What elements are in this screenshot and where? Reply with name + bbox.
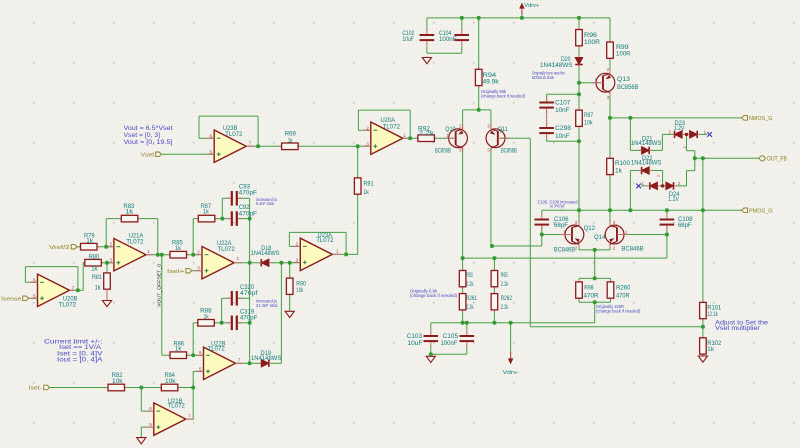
svg-text:9.4nF total: 9.4nF total	[256, 201, 274, 206]
svg-text:1k: 1k	[204, 314, 210, 321]
svg-text:Q13: Q13	[617, 76, 631, 83]
svg-text:68pF: 68pF	[554, 222, 568, 229]
svg-text:7: 7	[188, 413, 191, 418]
svg-text:1: 1	[704, 129, 707, 134]
svg-text:Iout = [0. 4]A: Iout = [0. 4]A	[57, 356, 103, 363]
svg-text:1k: 1k	[95, 285, 102, 292]
svg-text:Vout = [0, 19.5]: Vout = [0, 19.5]	[124, 139, 173, 146]
svg-text:10k: 10k	[584, 120, 593, 127]
svg-text:TL072: TL072	[383, 124, 401, 131]
svg-text:Vout = 6.5*Vset: Vout = 6.5*Vset	[124, 125, 173, 132]
svg-text:BZX84L15 diode: BZX84L15 diode	[532, 75, 554, 80]
svg-text:TL072: TL072	[225, 131, 243, 138]
svg-text:2: 2	[487, 124, 490, 129]
svg-text:R96: R96	[584, 32, 598, 39]
svg-text:3: 3	[607, 95, 610, 100]
svg-text:Vset multiplier: Vset multiplier	[715, 325, 760, 332]
svg-text:3: 3	[487, 147, 490, 152]
svg-text:1k: 1k	[86, 238, 94, 245]
svg-text:BC846B: BC846B	[554, 246, 575, 253]
svg-text:1: 1	[403, 133, 406, 138]
svg-text:R93: R93	[466, 272, 473, 279]
svg-text:470pf: 470pf	[240, 290, 258, 297]
svg-text:TL072: TL072	[218, 246, 236, 253]
svg-text:3: 3	[613, 220, 616, 225]
svg-text:1: 1	[147, 249, 150, 254]
svg-text:3: 3	[296, 258, 299, 263]
svg-text:10uF: 10uF	[407, 340, 422, 347]
svg-text:2: 2	[575, 245, 578, 250]
svg-text:TL072: TL072	[316, 237, 334, 244]
svg-text:R81: R81	[92, 274, 102, 281]
svg-text:1k: 1k	[363, 189, 369, 196]
svg-text:Q12: Q12	[584, 225, 596, 232]
svg-text:2: 2	[678, 181, 681, 186]
svg-text:BC846B: BC846B	[621, 246, 643, 253]
svg-text:TL072: TL072	[208, 346, 226, 353]
svg-text:7: 7	[238, 358, 241, 363]
svg-text:VOUT_OFFSET_0: VOUT_OFFSET_0	[157, 264, 162, 307]
svg-text:Iset-: Iset-	[29, 386, 43, 392]
svg-text:BC856B: BC856B	[501, 148, 517, 155]
svg-text:2: 2	[613, 245, 616, 250]
svg-text:1N4148WS: 1N4148WS	[631, 140, 662, 147]
svg-text:3: 3	[366, 141, 369, 146]
svg-text:3: 3	[575, 220, 578, 225]
svg-text:2.2k: 2.2k	[419, 130, 435, 137]
svg-text:100nF: 100nF	[439, 36, 457, 43]
svg-text:2: 2	[607, 67, 610, 72]
svg-text:10k: 10k	[165, 378, 176, 385]
svg-text:to 3*47pF: to 3*47pF	[550, 204, 565, 209]
svg-text:1k: 1k	[175, 245, 182, 252]
svg-text:21.4nF total: 21.4nF total	[256, 303, 277, 308]
svg-text:1: 1	[641, 181, 644, 186]
svg-text:470pF: 470pF	[239, 210, 257, 217]
svg-text:1N4148WS: 1N4148WS	[631, 160, 662, 167]
svg-text:Vref/2: Vref/2	[49, 245, 70, 251]
svg-text:R260: R260	[616, 284, 631, 291]
svg-text:1N4148WS: 1N4148WS	[251, 250, 280, 257]
svg-text:Vdrv+: Vdrv+	[524, 3, 540, 9]
svg-text:470R: 470R	[584, 293, 599, 300]
svg-text:68pF: 68pF	[678, 222, 692, 229]
svg-text:Isense: Isense	[1, 296, 22, 302]
svg-text:5: 5	[199, 366, 202, 371]
svg-text:R95: R95	[501, 272, 508, 279]
svg-text:R261: R261	[466, 295, 477, 302]
svg-text:100R: 100R	[584, 39, 600, 46]
svg-text:2.2k: 2.2k	[466, 304, 474, 311]
svg-text:470pF: 470pF	[240, 315, 258, 322]
svg-text:1: 1	[237, 256, 240, 261]
svg-text:TL072: TL072	[168, 402, 186, 409]
svg-text:1k: 1k	[203, 209, 209, 216]
svg-text:1.2V: 1.2V	[668, 196, 679, 203]
svg-text:BC856B: BC856B	[435, 148, 451, 155]
svg-text:TL072: TL072	[59, 302, 77, 309]
svg-text:2.2k: 2.2k	[501, 281, 509, 288]
svg-text:Vset: Vset	[141, 152, 155, 158]
svg-text:R97: R97	[584, 112, 593, 119]
svg-text:470R: 470R	[616, 293, 630, 300]
svg-text:1k: 1k	[707, 346, 715, 353]
svg-text:2: 2	[459, 124, 462, 129]
svg-text:2: 2	[366, 125, 369, 130]
svg-text:1k: 1k	[175, 346, 182, 353]
svg-text:PMOS_G: PMOS_G	[749, 208, 773, 214]
svg-text:Iset+: Iset+	[167, 269, 185, 275]
svg-text:3: 3	[109, 258, 112, 263]
svg-text:5: 5	[149, 422, 152, 427]
svg-text:1k: 1k	[91, 266, 98, 273]
svg-text:7: 7	[249, 141, 252, 146]
svg-text:100nF: 100nF	[441, 340, 458, 347]
svg-text:1: 1	[504, 133, 507, 138]
svg-text:100R: 100R	[616, 50, 631, 57]
svg-text:6: 6	[199, 350, 202, 355]
svg-text:1: 1	[336, 249, 339, 254]
svg-text:Vset = [0, 3]: Vset = [0, 3]	[124, 132, 161, 139]
svg-text:OUT_FB: OUT_FB	[767, 156, 787, 162]
svg-text:Q14: Q14	[594, 234, 606, 241]
svg-text:1k: 1k	[615, 167, 623, 174]
svg-text:1: 1	[446, 133, 449, 138]
svg-text:3: 3	[459, 147, 462, 152]
svg-text:7: 7	[72, 285, 75, 290]
svg-text:6: 6	[209, 133, 212, 138]
svg-text:5: 5	[33, 293, 36, 298]
svg-text:1N4148WS: 1N4148WS	[540, 62, 573, 69]
svg-text:10nF: 10nF	[555, 107, 570, 114]
svg-text:1: 1	[563, 229, 566, 234]
svg-text:R262: R262	[501, 295, 513, 302]
svg-text:2: 2	[109, 242, 112, 247]
svg-text:5: 5	[209, 149, 212, 154]
svg-text:R91: R91	[363, 180, 374, 187]
svg-text:NMOS_G: NMOS_G	[749, 116, 773, 122]
svg-text:3: 3	[197, 266, 200, 271]
svg-text:2.2k: 2.2k	[501, 304, 509, 311]
svg-text:R100: R100	[615, 160, 630, 167]
svg-text:10k: 10k	[296, 287, 304, 294]
svg-text:49.9k: 49.9k	[483, 79, 500, 86]
svg-text:10uF: 10uF	[402, 36, 414, 43]
svg-text:2.2k: 2.2k	[466, 281, 474, 288]
svg-text:10k: 10k	[112, 378, 123, 385]
svg-text:1.2V: 1.2V	[674, 125, 685, 132]
svg-text:6: 6	[33, 277, 36, 282]
svg-text:1k: 1k	[125, 209, 134, 216]
svg-text:1N4148WS: 1N4148WS	[251, 355, 281, 362]
svg-text:1k: 1k	[288, 137, 294, 144]
svg-text:R80: R80	[89, 253, 100, 260]
svg-text:10nF: 10nF	[555, 133, 570, 140]
svg-text:(change back if needed): (change back if needed)	[596, 308, 641, 313]
svg-text:R98: R98	[584, 284, 594, 291]
svg-text:470pF: 470pF	[239, 189, 257, 196]
svg-text:(change back if needed): (change back if needed)	[410, 293, 458, 298]
svg-text:1: 1	[625, 229, 628, 234]
svg-text:2: 2	[197, 250, 200, 255]
svg-text:C107: C107	[555, 99, 571, 106]
svg-text:Vdrv-: Vdrv-	[503, 370, 519, 376]
svg-text:2: 2	[656, 175, 661, 177]
svg-text:3: 3	[682, 146, 687, 148]
svg-text:2: 2	[668, 129, 671, 134]
svg-text:C298: C298	[555, 125, 571, 132]
svg-text:BC856B: BC856B	[617, 84, 639, 91]
svg-text:12.1k: 12.1k	[707, 311, 718, 318]
svg-text:2: 2	[296, 241, 299, 246]
svg-text:6: 6	[149, 406, 152, 411]
svg-text:(change back if needed): (change back if needed)	[481, 93, 526, 98]
svg-text:1: 1	[594, 77, 597, 82]
svg-text:TL072: TL072	[126, 239, 144, 246]
